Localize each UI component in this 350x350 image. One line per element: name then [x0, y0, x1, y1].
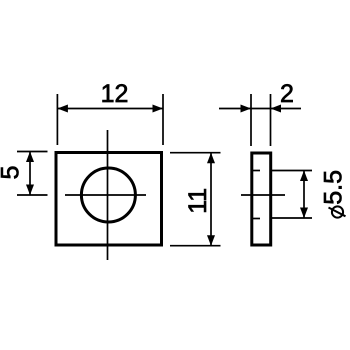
svg-text:11: 11 [184, 188, 212, 214]
svg-text:2: 2 [280, 80, 294, 108]
svg-text:12: 12 [101, 80, 129, 108]
svg-text:5: 5 [0, 166, 25, 180]
svg-text:5.5: 5.5 [320, 170, 348, 205]
